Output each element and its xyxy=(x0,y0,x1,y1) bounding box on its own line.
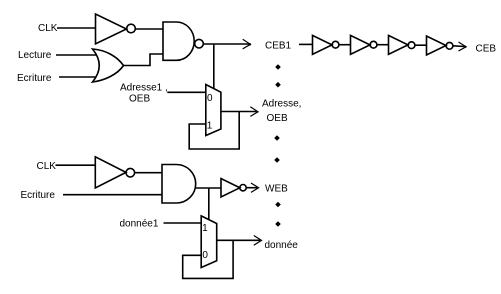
wire CLK to inverter U6 xyxy=(56,164,96,166)
inverter U7 bubble xyxy=(240,185,246,191)
wire U2 to U3 xyxy=(339,44,351,46)
inverter U6 bubble xyxy=(126,168,135,177)
svg-text:Lecture: Lecture xyxy=(18,50,52,61)
arrowhead CEB1 xyxy=(243,39,251,49)
mux M1 body xyxy=(206,85,221,136)
svg-text:Ecriture: Ecriture xyxy=(21,190,56,201)
and gate G3 xyxy=(162,165,196,204)
wire OR output with step up to NAND xyxy=(124,54,164,66)
wire U4 to U5 xyxy=(415,44,427,46)
nand G2 output bubble xyxy=(195,39,204,48)
wire Ecriture to OR gate xyxy=(59,76,96,78)
wire donnée1 to mux M2 input 1 xyxy=(164,222,202,224)
inverter chain U2 triangle xyxy=(313,35,333,54)
wire U1 output to NAND input xyxy=(135,28,163,30)
svg-text:OEB: OEB xyxy=(267,113,288,124)
svg-text:1: 1 xyxy=(207,121,213,132)
wire CLK to inverter U1 xyxy=(57,27,96,29)
wire Ecriture to AND input xyxy=(63,194,162,196)
inverter U7 triangle xyxy=(221,179,240,198)
inverter U1 triangle xyxy=(96,14,127,44)
arrowhead donnée xyxy=(254,236,262,246)
inverter chain U2 bubble xyxy=(332,41,339,48)
inverter U6 triangle xyxy=(95,157,126,188)
arrowhead CEB xyxy=(459,42,467,51)
wire select drop to mux M1 xyxy=(213,44,215,89)
svg-text:0: 0 xyxy=(207,93,213,104)
svg-text:CLK: CLK xyxy=(37,161,57,172)
wire U3 to U4 xyxy=(377,44,389,46)
wire mux M1 output xyxy=(221,111,257,113)
wire U6 output to AND input xyxy=(135,172,162,174)
wire Adresse1/OEB to mux M1 input 0 xyxy=(167,91,206,93)
svg-text:OEB: OEB xyxy=(129,94,150,105)
wire U5 output xyxy=(453,45,465,48)
svg-text:1: 1 xyxy=(202,223,208,234)
wire AND output xyxy=(196,187,221,189)
svg-text:CEB1: CEB1 xyxy=(265,41,292,52)
wire NAND output xyxy=(203,43,249,45)
svg-text:donnée1: donnée1 xyxy=(120,219,159,230)
svg-text:0: 0 xyxy=(202,250,208,261)
svg-text:WEB: WEB xyxy=(265,184,288,195)
inverter chain U5 triangle xyxy=(427,36,447,55)
ellipsis dot 1 xyxy=(275,64,281,70)
svg-text:CEB: CEB xyxy=(476,44,497,55)
OR gate G1 xyxy=(93,49,124,82)
inverter chain U3 triangle xyxy=(351,35,371,54)
ellipsis dot 4 xyxy=(274,157,280,163)
mux M2 body xyxy=(201,216,217,268)
wire mux M2 output xyxy=(217,239,260,241)
inverter chain U4 triangle xyxy=(389,35,409,54)
arrowhead WEB xyxy=(251,183,259,192)
svg-text:CLK: CLK xyxy=(38,23,58,34)
svg-text:Adresse1 ,: Adresse1 , xyxy=(120,83,168,94)
inverter chain U5 bubble xyxy=(446,42,453,49)
arrowhead Adresse,OEB xyxy=(250,107,258,117)
wire Lecture to OR gate xyxy=(56,54,96,56)
inverter chain U4 bubble xyxy=(408,42,415,49)
wire U7 output xyxy=(246,187,257,189)
wire select drop to mux M2 xyxy=(208,188,210,220)
wire feedback loop M1 xyxy=(189,112,239,150)
inverter U1 bubble xyxy=(127,24,136,33)
svg-text:Adresse,: Adresse, xyxy=(262,99,301,110)
wire feedback loop M2 xyxy=(183,240,233,278)
ellipsis dot 2 xyxy=(275,82,281,88)
svg-text:donnée: donnée xyxy=(265,240,299,251)
wire into inverter chain xyxy=(299,43,313,45)
ellipsis dot 5 xyxy=(275,202,281,208)
svg-text:Ecriture: Ecriture xyxy=(17,73,52,84)
inverter chain U3 bubble xyxy=(370,41,377,48)
ellipsis dot 3 xyxy=(274,135,280,141)
ellipsis dot 6 xyxy=(275,221,281,227)
nand gate G2 xyxy=(163,22,194,60)
